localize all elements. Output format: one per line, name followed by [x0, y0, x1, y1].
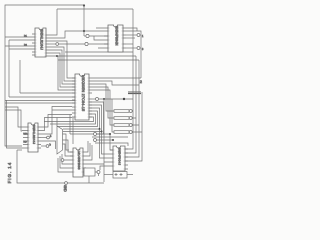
wire U3 right y78 to terminal — [92, 77, 141, 79]
U3 left pins — [72, 78, 75, 117]
U3 right pins — [89, 78, 92, 117]
resistor R2 — [114, 117, 129, 120]
terminal circle bottom right of U5 — [97, 171, 100, 174]
svg-text:b: b — [50, 144, 52, 147]
terminal circle U4 a — [47, 136, 50, 139]
wire y36 stub — [84, 35, 86, 37]
wires trapezoid to U5 — [63, 134, 70, 150]
vertical x70 branch — [69, 115, 71, 135]
svg-text:2: 2 — [140, 79, 143, 84]
svg-text:RD: RD — [24, 141, 28, 143]
wire U4 up-over c — [41, 107, 72, 135]
ground wire — [17, 150, 104, 183]
U6 left wires — [100, 129, 111, 170]
wire bundle U1 right to U3 staircase — [49, 41, 75, 78]
wire box right — [127, 174, 133, 176]
svg-text:SN54LS244J: SN54LS244J — [32, 125, 36, 145]
U5 right pins — [83, 152, 86, 172]
terminal circle y36 — [86, 34, 89, 37]
U4 left pins — [22, 127, 28, 148]
U2 input wires — [84, 28, 104, 48]
U1 left pins — [30, 34, 35, 55]
terminal circle right a — [137, 34, 140, 37]
terminal circle R1 — [129, 110, 132, 113]
node dots above U6 — [109, 133, 111, 135]
svg-text:LM1458H883: LM1458H883 — [77, 150, 81, 170]
wire y137 — [92, 136, 128, 138]
U5 left wires — [58, 154, 70, 172]
svg-text:SN54F864N: SN54F864N — [115, 26, 119, 46]
wire U3 right y85 — [92, 81, 139, 85]
wire left rail + top border — [5, 5, 84, 146]
wire up-over from U1 pin to node B — [49, 31, 84, 38]
U5 left pins — [70, 152, 73, 172]
vertical x73 branch — [72, 118, 74, 145]
wire y44 to U2 pin — [88, 43, 108, 45]
resistor R1 — [114, 110, 129, 113]
U2 left pins — [104, 28, 108, 48]
pin number ticks — [35, 34, 45, 56]
ground junction circle — [65, 182, 68, 185]
terminal circle U4 b — [46, 145, 49, 148]
svg-text:3: 3 — [142, 49, 144, 51]
terminal circle right b — [137, 47, 140, 50]
wire y103 long — [5, 102, 75, 104]
node dot U1 lower — [56, 55, 58, 57]
svg-text:SN54LS164J: SN54LS164J — [40, 29, 44, 50]
svg-text:SN54F904J: SN54F904J — [118, 148, 122, 166]
right rail x139 — [125, 60, 139, 157]
resistor R3 — [114, 124, 129, 127]
resistor R4 — [114, 131, 129, 134]
wire right drop x133 — [132, 9, 134, 52]
wire x9 vertical — [8, 40, 10, 97]
wire long bus y59.5 — [58, 59, 139, 61]
svg-text:FIG. 14: FIG. 14 — [7, 162, 12, 184]
wire U4 down d — [41, 141, 56, 149]
svg-text:b: b — [50, 135, 52, 138]
DAC trapezoid — [57, 126, 63, 154]
wire box left to rail — [104, 174, 113, 176]
U1 input wires — [5, 37, 30, 49]
IC U2 body — [108, 25, 123, 52]
wire y36 to U2 pin — [89, 35, 108, 37]
terminal circle y44 — [85, 42, 88, 45]
wire U2 pin y28 — [126, 28, 137, 31]
right rail x133 — [125, 52, 133, 149]
wire y99 right segment — [92, 98, 95, 100]
wire y143 — [95, 143, 128, 146]
IC U3 body center — [75, 74, 89, 120]
wire U4 up-over a — [41, 115, 72, 128]
wire feed resistor4 — [112, 99, 114, 132]
U6 right pins — [125, 149, 128, 169]
trapezoid feed vertical — [56, 118, 58, 127]
node dot y99 — [123, 98, 125, 100]
rail x104 down — [103, 98, 105, 100]
node B junction dot — [83, 30, 85, 32]
resistor stubs to rails — [132, 111, 142, 132]
wire U2 pin y31 to right rail — [126, 31, 141, 78]
wire U3 pins to resistor feeds — [92, 84, 114, 111]
wires above U6 — [97, 134, 114, 150]
terminal circle R4 — [129, 131, 132, 134]
wire y97 to U3 — [9, 96, 75, 98]
node dots wrap — [99, 128, 101, 130]
wire long bus y55.5 — [57, 55, 136, 57]
wire x84 vertical — [83, 5, 85, 36]
IC U5 body bottom-center — [73, 148, 83, 177]
right rail x142 — [125, 92, 142, 161]
terminal circle above U6 a — [94, 133, 97, 136]
U3 right wrap bus lines — [44, 117, 94, 122]
right rail x136 — [125, 56, 136, 153]
terminal circle U5 — [61, 159, 64, 162]
U4 input wires — [5, 107, 22, 127]
U6 left pins — [110, 150, 113, 166]
wire x20 vertical — [19, 60, 21, 93]
wire top bus y9 — [57, 8, 133, 10]
wire box stub — [88, 176, 90, 183]
wire U4 up-over b — [41, 118, 72, 131]
terminal circle R2 — [129, 117, 132, 120]
wire from top bus to U1 — [49, 9, 57, 35]
wire y100 long — [5, 100, 75, 102]
wire U2 pin y44 — [126, 43, 133, 45]
svg-text:WR: WR — [24, 133, 28, 135]
svg-text:GND: GND — [63, 185, 67, 192]
svg-text:1: 1 — [142, 36, 144, 38]
wire long y52 — [65, 51, 133, 53]
IC U6 body bottom-right — [113, 146, 125, 171]
terminal circle above U6 b — [94, 139, 97, 142]
IC U1 body — [35, 28, 46, 57]
dark bar pair — [128, 92, 141, 94]
U4 right pins — [38, 127, 41, 148]
wire left rail inner — [7, 100, 23, 148]
U1 right pins — [46, 35, 49, 56]
terminal circle on U1 pin y44 — [49, 43, 56, 45]
terminal circle y99 — [96, 98, 99, 101]
node A junction dot top — [83, 4, 85, 6]
connector box below U6 — [113, 172, 127, 179]
svg-text:N8X305N 27C64-15: N8X305N 27C64-15 — [81, 75, 85, 111]
U2 right pins — [123, 28, 126, 48]
terminal circle R3 — [129, 124, 132, 127]
wire U2 pin y38 — [126, 37, 135, 39]
small box above ground — [84, 168, 95, 176]
wire y93 to U3 — [20, 92, 75, 94]
wire y110 branch — [52, 109, 72, 111]
IC U4 body bottom-left — [28, 123, 38, 152]
U5 right wires — [84, 141, 104, 168]
